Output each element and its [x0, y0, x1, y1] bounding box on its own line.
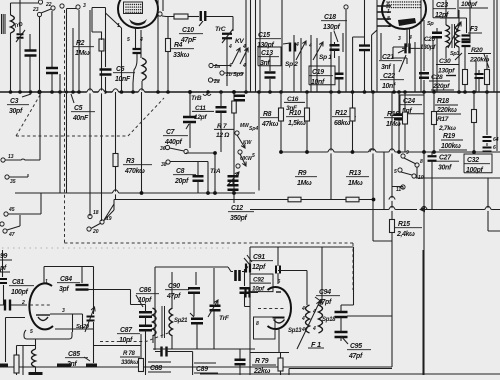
svg-text:4: 4 [312, 326, 316, 332]
svg-text:R 7: R 7 [217, 123, 227, 130]
svg-text:4: 4 [242, 44, 246, 50]
svg-text:C94: C94 [319, 289, 331, 296]
svg-text:10nf: 10nf [311, 79, 325, 86]
svg-text:R4: R4 [174, 42, 183, 49]
svg-text:R 78: R 78 [123, 351, 135, 357]
svg-text:3nf: 3nf [260, 60, 270, 67]
svg-text:1Mω: 1Mω [386, 121, 401, 128]
svg-text:C5: C5 [74, 105, 83, 112]
svg-text:5: 5 [252, 153, 255, 159]
svg-text:100pf: 100pf [11, 289, 28, 296]
svg-text:C16: C16 [287, 96, 299, 103]
svg-text:pf: pf [0, 265, 7, 272]
svg-text:12pf: 12pf [194, 114, 207, 121]
svg-text:R8: R8 [263, 111, 272, 118]
svg-text:C13: C13 [261, 50, 273, 57]
svg-text:MW: MW [240, 123, 250, 129]
svg-text:C90: C90 [168, 283, 180, 290]
svg-text:64: 64 [493, 137, 499, 143]
svg-text:47pf: 47pf [166, 293, 181, 300]
svg-text:C85: C85 [68, 351, 80, 358]
svg-text:330kω: 330kω [121, 360, 138, 366]
svg-text:12pf: 12pf [252, 264, 266, 271]
svg-text:C91: C91 [253, 254, 265, 261]
svg-text:3: 3 [83, 3, 86, 9]
svg-text:R16: R16 [387, 111, 399, 118]
svg-text:2a: 2a [214, 64, 221, 70]
svg-text:5: 5 [127, 37, 130, 43]
svg-text:3pf: 3pf [59, 286, 69, 293]
svg-text:33kω: 33kω [173, 52, 190, 59]
svg-text:4: 4 [301, 327, 305, 333]
svg-text:R18: R18 [437, 98, 449, 105]
svg-text:2nf: 2nf [66, 361, 77, 368]
svg-text:R19: R19 [443, 133, 455, 140]
svg-text:2,4kω: 2,4kω [396, 231, 415, 238]
svg-text:R3: R3 [126, 158, 135, 165]
svg-text:38: 38 [161, 162, 167, 168]
svg-text:2: 2 [21, 300, 25, 306]
svg-text:1Mω: 1Mω [348, 180, 363, 187]
svg-text:Sp 2: Sp 2 [285, 61, 298, 68]
svg-text:C92: C92 [253, 277, 264, 284]
svg-text:12 Ω: 12 Ω [216, 132, 229, 139]
svg-text:C8: C8 [176, 168, 185, 175]
svg-text:4: 4 [301, 316, 305, 322]
svg-text:3nf: 3nf [381, 64, 391, 71]
svg-text:8: 8 [256, 321, 259, 327]
svg-text:1,5kω: 1,5kω [288, 120, 306, 127]
svg-text:C86: C86 [139, 287, 151, 294]
svg-text:10nF: 10nF [115, 76, 131, 83]
svg-text:10pf: 10pf [252, 286, 265, 293]
svg-text:47pF: 47pF [180, 37, 197, 44]
svg-text:100pf: 100pf [466, 167, 483, 174]
svg-text:C3: C3 [10, 98, 19, 105]
svg-text:1Mω: 1Mω [75, 50, 90, 57]
svg-text:Sp18: Sp18 [322, 317, 336, 323]
svg-text:TrF: TrF [219, 315, 230, 322]
svg-text:TrB: TrB [191, 95, 202, 102]
svg-text:45: 45 [8, 207, 15, 213]
svg-text:13: 13 [8, 154, 14, 160]
svg-text:4: 4 [308, 43, 312, 49]
svg-text:1: 1 [45, 279, 48, 285]
svg-text:C89: C89 [196, 366, 208, 373]
svg-text:Sp: Sp [427, 21, 434, 27]
svg-text:22: 22 [45, 2, 52, 8]
svg-text:C26: C26 [424, 36, 435, 43]
svg-text:40nF: 40nF [72, 115, 89, 122]
svg-text:4: 4 [228, 44, 232, 50]
svg-text:99: 99 [0, 253, 8, 260]
svg-text:1: 1 [387, 9, 390, 15]
svg-text:4: 4 [242, 63, 246, 69]
svg-text:C6: C6 [116, 66, 125, 73]
svg-text:100pf: 100pf [461, 1, 478, 8]
svg-text:C30: C30 [439, 58, 451, 65]
svg-text:TrA: TrA [210, 168, 221, 175]
svg-text:R9: R9 [298, 170, 307, 177]
svg-text:130pf: 130pf [420, 44, 436, 51]
svg-text:C22: C22 [383, 73, 395, 80]
svg-text:C21: C21 [382, 54, 394, 61]
svg-text:Sp21: Sp21 [174, 318, 188, 324]
svg-text:C11: C11 [195, 105, 206, 112]
svg-text:6: 6 [493, 145, 496, 151]
svg-text:47kω: 47kω [261, 121, 279, 128]
svg-text:Sp9: Sp9 [233, 72, 244, 78]
svg-text:470kω: 470kω [124, 168, 145, 175]
svg-text:R2: R2 [76, 40, 85, 47]
svg-text:4: 4 [312, 309, 316, 315]
svg-text:C10: C10 [182, 27, 194, 34]
svg-text:Sp 1: Sp 1 [319, 54, 332, 61]
svg-text:4: 4 [295, 42, 299, 48]
svg-text:C12: C12 [231, 205, 243, 212]
svg-text:R15: R15 [398, 221, 410, 228]
svg-text:35: 35 [10, 179, 16, 185]
svg-text:F3: F3 [470, 26, 478, 33]
svg-text:Sp3: Sp3 [450, 51, 459, 57]
svg-text:30nf: 30nf [438, 164, 452, 171]
svg-text:9: 9 [406, 150, 409, 156]
svg-text:3: 3 [398, 36, 401, 42]
svg-text:11: 11 [396, 187, 401, 193]
svg-text:C19: C19 [312, 69, 324, 76]
svg-text:Sp4: Sp4 [249, 126, 258, 132]
svg-text:3: 3 [62, 308, 65, 314]
svg-text:1: 1 [117, 23, 120, 29]
svg-text:20: 20 [92, 229, 99, 235]
svg-text:C84: C84 [60, 276, 72, 283]
svg-text:C15: C15 [258, 32, 270, 39]
svg-text:C88: C88 [150, 365, 162, 372]
svg-text:C87: C87 [120, 327, 133, 334]
svg-text:C95: C95 [350, 343, 362, 350]
svg-text:440pf: 440pf [164, 139, 182, 146]
svg-text:23: 23 [32, 7, 39, 13]
svg-text:350pf: 350pf [230, 215, 247, 222]
svg-text:4: 4 [408, 35, 412, 41]
svg-text:130pf: 130pf [257, 42, 274, 49]
svg-text:5: 5 [30, 329, 33, 335]
svg-text:C18: C18 [324, 14, 336, 21]
svg-text:C32: C32 [467, 157, 479, 164]
svg-text:R20: R20 [471, 47, 483, 54]
svg-text:C27: C27 [439, 155, 452, 162]
svg-text:1Mω: 1Mω [297, 180, 312, 187]
svg-text:68kω: 68kω [334, 120, 351, 127]
svg-text:R12: R12 [335, 110, 347, 117]
svg-text:220pf: 220pf [432, 83, 450, 90]
svg-text:18: 18 [93, 210, 99, 216]
svg-text:47pf: 47pf [348, 353, 363, 360]
svg-text:Sp13: Sp13 [288, 328, 302, 334]
svg-text:220kω: 220kω [436, 107, 457, 114]
svg-text:100kω: 100kω [441, 143, 461, 150]
svg-text:2,7kω: 2,7kω [438, 125, 457, 132]
svg-text:R 79: R 79 [255, 358, 269, 365]
svg-text:5: 5 [394, 169, 397, 175]
svg-text:R13: R13 [349, 170, 361, 177]
svg-text:4: 4 [301, 306, 305, 312]
svg-text:10pf: 10pf [119, 337, 133, 344]
svg-text:30pf: 30pf [9, 108, 23, 115]
svg-text:130pf: 130pf [323, 24, 340, 31]
svg-text:8: 8 [420, 159, 423, 165]
svg-text:36: 36 [160, 146, 166, 152]
svg-text:20pf: 20pf [174, 178, 189, 185]
svg-text:47: 47 [8, 232, 15, 238]
svg-text:C81: C81 [12, 279, 24, 286]
svg-text:3nF: 3nF [286, 105, 298, 112]
svg-text:R17: R17 [437, 116, 449, 123]
svg-text:TrC: TrC [215, 26, 226, 33]
